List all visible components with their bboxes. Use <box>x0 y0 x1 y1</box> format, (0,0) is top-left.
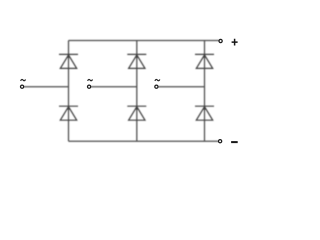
label + <box>232 39 238 46</box>
terminal AC 3 <box>155 85 158 88</box>
terminal AC 1 <box>21 85 24 88</box>
diode D4 (lower, leg 1) <box>59 106 78 120</box>
wire AC phase 3 <box>158 86 204 88</box>
wire AC phase 1 <box>24 86 69 88</box>
label - <box>231 141 238 143</box>
label ~ phase 3 <box>155 79 160 81</box>
top rail (+ bus wire) <box>69 40 220 42</box>
wire leg 1 <box>68 41 70 142</box>
diode D2 (lower, leg 3) <box>195 106 214 120</box>
terminal - output <box>219 140 222 143</box>
diode D5 (upper, leg 3) <box>195 54 214 68</box>
terminal AC 2 <box>88 85 91 88</box>
wire AC phase 2 <box>91 86 137 88</box>
label ~ phase 1 <box>21 79 26 81</box>
wire leg 3 <box>204 41 206 142</box>
diode D1 (upper, leg 1) <box>59 54 78 68</box>
wire leg 2 <box>136 41 138 142</box>
terminal + output <box>219 39 222 42</box>
diode D3 (upper, leg 2) <box>127 54 146 68</box>
label ~ phase 2 <box>88 79 93 81</box>
bottom rail (- bus wire) <box>69 140 219 142</box>
diode D6 (lower, leg 2) <box>127 106 146 120</box>
